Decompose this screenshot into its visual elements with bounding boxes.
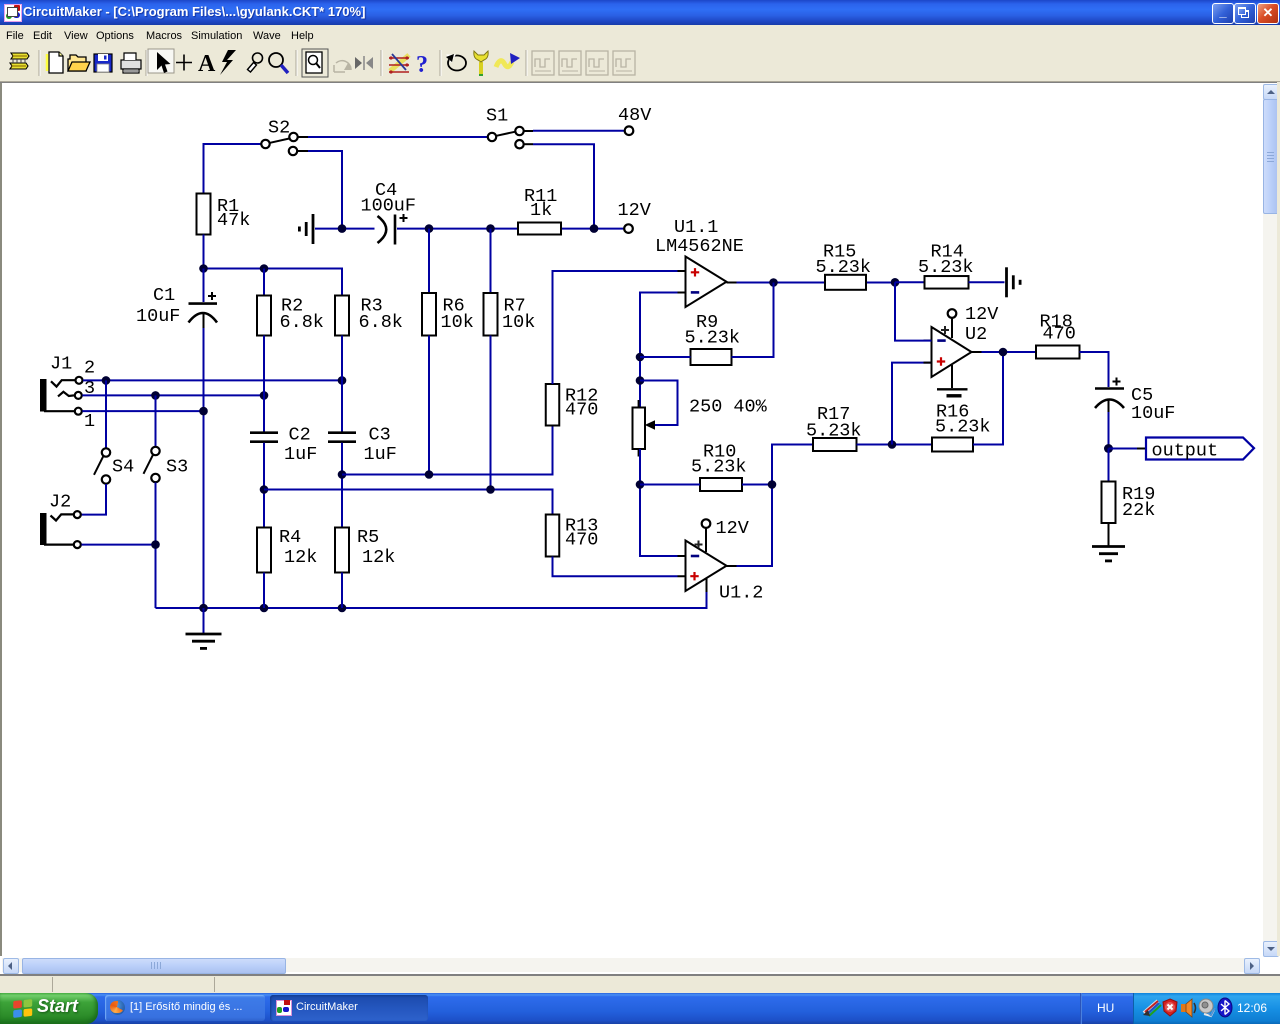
label LM4562NE — [655, 236, 744, 257]
capacitor C4 100uF — [378, 214, 408, 245]
wire R7 top — [490, 229, 492, 293]
resistor R10 — [700, 478, 742, 491]
label C2 1uF — [284, 425, 317, 466]
menu bar — [0, 25, 1280, 45]
wire R12 top to U1.1 + input — [553, 271, 678, 384]
label R19 22k — [1122, 484, 1155, 521]
label R16 5.23k — [935, 402, 991, 438]
wire C3 bottom to R5 — [338, 443, 347, 528]
switch S3 — [144, 447, 160, 482]
wire bottom ground rail — [156, 592, 707, 613]
switch S2 — [261, 133, 308, 155]
label R17 5.23k — [806, 404, 862, 442]
wire U2 output — [982, 348, 1037, 357]
resistor R5 — [335, 528, 349, 573]
wire U2 VCC stub — [951, 318, 953, 338]
wire U1.2 VEE stub — [706, 579, 708, 593]
resistor R15 — [825, 275, 866, 290]
label 48V — [618, 105, 651, 126]
terminal 12V U2 — [948, 309, 957, 318]
label R5 12k — [357, 527, 395, 568]
op-amp U2 — [924, 326, 982, 377]
title bar — [0, 0, 1280, 25]
wire R19 bottom — [1108, 523, 1110, 546]
wire U1.2 output up to R17 — [737, 445, 814, 567]
svg-text:12k: 12k — [362, 547, 395, 568]
label pot 250 40% — [689, 397, 768, 418]
label output — [1152, 441, 1219, 462]
wire S1 lower to 12V row — [533, 144, 594, 228]
wire output node to flag — [1109, 448, 1147, 450]
pen icon — [1143, 1001, 1161, 1016]
resistor R19 — [1102, 482, 1116, 524]
gray speaker — [1199, 999, 1215, 1016]
wire C5 bottom to output node — [1108, 412, 1110, 449]
wire ground to C4 — [315, 228, 375, 230]
svg-text:5.23k: 5.23k — [685, 328, 741, 349]
resistor R18 — [1036, 346, 1080, 359]
wire R5 bottom — [341, 573, 343, 609]
svg-text:J2: J2 — [49, 492, 71, 513]
label R13 470 — [565, 516, 598, 551]
wire R2 bottom to C2 — [263, 336, 265, 432]
label U1.1 — [674, 217, 718, 238]
speaker orange — [1181, 999, 1196, 1017]
wire pot bottom to R10 row — [636, 449, 678, 556]
wire S4 bottom to J2 tip — [82, 484, 107, 515]
op-amp U1.2 — [678, 541, 737, 592]
resistor R7 — [484, 293, 498, 336]
svg-text:5.23k: 5.23k — [806, 421, 862, 442]
capacitor C5 10uF — [1095, 378, 1124, 413]
op-amp U1.1 — [678, 257, 737, 308]
wire C1 bottom long vertical — [203, 328, 205, 608]
wire R6 bottom — [428, 336, 430, 475]
resistor R6 — [422, 293, 436, 336]
label R9 5.23k — [685, 312, 741, 349]
label S4 — [112, 457, 134, 478]
wire row to R13 top — [264, 485, 553, 514]
label R18 470 — [1040, 312, 1076, 345]
task button 1 — [105, 995, 265, 1021]
wire R9 right to output — [732, 283, 774, 358]
wire S2 lower contact down to C4 row — [308, 151, 342, 229]
resistor R11 — [518, 223, 561, 235]
label R14 5.23k — [918, 242, 974, 279]
label J1 pin 3 — [84, 378, 95, 399]
resistor R4 — [257, 528, 271, 573]
label J1 — [50, 354, 72, 375]
svg-text:S1: S1 — [486, 106, 508, 127]
svg-text:5.23k: 5.23k — [691, 457, 747, 478]
label R4 12k — [279, 527, 317, 568]
svg-text:12V: 12V — [618, 200, 651, 221]
output flag — [1146, 438, 1254, 460]
wire C4 to 12V terminal — [397, 228, 624, 230]
label S3 — [166, 457, 188, 478]
wire C1 top — [203, 269, 205, 303]
wire R13 bottom to U1.2 + input — [553, 557, 678, 577]
svg-text:S3: S3 — [166, 457, 188, 478]
tray — [1080, 993, 1082, 1024]
wire R19 top — [1108, 449, 1110, 482]
label C3 1uF — [364, 425, 397, 466]
ground below U2 — [937, 389, 968, 396]
potentiometer 250 40% — [633, 381, 678, 457]
resistor R13 — [546, 515, 560, 557]
horizontal scrollbar — [2, 958, 1260, 972]
wire U2 + input — [892, 363, 932, 445]
label R7 10k — [502, 296, 535, 334]
wire R18 right down to C5 — [1080, 352, 1109, 387]
svg-text:12V: 12V — [965, 304, 998, 325]
svg-text:470: 470 — [565, 400, 598, 421]
wire C2 bottom to R4 — [260, 443, 269, 528]
resistor R12 — [546, 384, 560, 426]
svg-text:R4: R4 — [279, 527, 301, 548]
svg-text:R5: R5 — [357, 527, 379, 548]
svg-text:S4: S4 — [112, 457, 134, 478]
wire R16 right up to U2 output — [973, 353, 1003, 445]
jack J1 — [40, 377, 83, 415]
svg-text:LM4562NE: LM4562NE — [655, 236, 744, 257]
wire R7 bottom — [490, 336, 492, 490]
label C4 100uF — [361, 180, 417, 217]
svg-text:U1.2: U1.2 — [719, 583, 763, 604]
label R3 6.8k — [359, 296, 403, 334]
wire U1.2 VCC stub — [705, 528, 707, 552]
label C1 10uF — [136, 285, 180, 327]
svg-text:5.23k: 5.23k — [918, 257, 974, 278]
svg-text:100uF: 100uF — [361, 196, 417, 217]
jack J2 — [40, 511, 81, 548]
label 12V U1.2 — [716, 518, 749, 539]
terminal 12V U1.2 — [702, 519, 711, 528]
node R11 right — [590, 224, 599, 233]
svg-text:12V: 12V — [716, 518, 749, 539]
svg-text:22k: 22k — [1122, 500, 1155, 521]
label R11 1k — [524, 186, 557, 221]
red shield — [1163, 999, 1177, 1016]
wire junction down to U2 - input — [895, 282, 932, 340]
status bar — [0, 974, 1280, 976]
resistor R2 — [257, 296, 271, 336]
node R7 top — [486, 224, 495, 233]
label R12 470 — [565, 386, 598, 421]
resistor R9 — [691, 349, 732, 365]
wire R14 right to ground — [969, 281, 1005, 283]
svg-text:10uF: 10uF — [1131, 403, 1175, 424]
toolbar — [0, 45, 1280, 82]
resistor R1 — [197, 194, 211, 235]
label U2 — [965, 324, 987, 345]
wire R1 bottom to node row — [203, 235, 205, 269]
svg-text:1uF: 1uF — [364, 444, 397, 465]
wire row to R12 bottom — [342, 426, 553, 479]
title text — [23, 4, 365, 19]
wire S2 left to R1 top — [204, 144, 262, 194]
node S2-C4 — [338, 224, 347, 233]
capacitor C2 — [250, 433, 278, 442]
svg-text:470: 470 — [1043, 324, 1076, 345]
wire J1 pin3 row — [82, 391, 268, 400]
wire U1.1 output — [737, 278, 892, 287]
node R6 top — [425, 224, 434, 233]
wire S3 bottom down — [151, 483, 160, 609]
label R1 47k — [217, 196, 250, 231]
svg-text:6.8k: 6.8k — [280, 312, 324, 333]
label C5 10uF — [1131, 385, 1175, 424]
label 12V — [618, 200, 651, 221]
start button — [0, 993, 98, 1024]
wire R9 left — [640, 356, 691, 358]
resistor R3 — [335, 296, 349, 336]
svg-text:10uF: 10uF — [136, 306, 180, 327]
label U1.2 — [719, 583, 763, 604]
terminal 48V — [625, 126, 634, 135]
node R15-R14 — [891, 278, 900, 287]
label R15 5.23k — [816, 242, 872, 279]
label J1 pin 1 — [84, 411, 95, 432]
svg-text:6.8k: 6.8k — [359, 312, 403, 333]
svg-text:S2: S2 — [268, 118, 290, 139]
ground left of C4 — [299, 214, 313, 244]
svg-text:output: output — [1152, 441, 1219, 462]
svg-text:250 40%: 250 40% — [689, 397, 768, 418]
capacitor C3 — [328, 433, 356, 442]
label J1 pin 2 — [84, 358, 95, 379]
wire R10 left — [640, 484, 700, 486]
svg-text:12k: 12k — [284, 547, 317, 568]
svg-text:J1: J1 — [50, 354, 72, 375]
svg-text:5.23k: 5.23k — [816, 257, 872, 278]
svg-text:U1.1: U1.1 — [674, 217, 718, 238]
node R1-R2-R3 row — [199, 264, 342, 295]
wire S3 top — [155, 395, 157, 446]
node output — [1104, 444, 1113, 453]
svg-text:C2: C2 — [289, 425, 311, 446]
wire R3 bottom to C3 — [341, 336, 343, 432]
wire U2 VEE stub — [951, 365, 953, 388]
wire J2 sleeve row — [82, 544, 156, 546]
wire S2 to S1 — [308, 136, 488, 138]
ground right of R14 — [1007, 267, 1021, 297]
svg-text:C3: C3 — [369, 425, 391, 446]
wire R6 top — [428, 229, 430, 293]
bluetooth — [1218, 998, 1232, 1017]
wire S4 top — [105, 380, 107, 448]
terminal 12V — [624, 224, 633, 233]
svg-text:10k: 10k — [502, 312, 535, 333]
svg-text:1k: 1k — [530, 200, 552, 221]
wire R10 right — [742, 484, 772, 486]
label J2 — [49, 492, 71, 513]
svg-text:470: 470 — [565, 530, 598, 551]
label 12V U2 — [965, 304, 998, 325]
switch S1 — [488, 127, 533, 149]
wire U1.1 - input — [636, 293, 678, 408]
svg-text:10k: 10k — [441, 312, 474, 333]
taskbar — [0, 993, 1280, 1024]
wire R4 bottom — [263, 573, 265, 609]
wire S1 to 48V terminal — [533, 130, 625, 132]
svg-text:2: 2 — [84, 358, 95, 379]
svg-text:1uF: 1uF — [284, 444, 317, 465]
capacitor C1 — [189, 292, 218, 328]
resistor R16 — [932, 438, 973, 452]
switch S4 — [94, 448, 110, 483]
wire J1 pin2 row — [83, 376, 346, 385]
app icon — [4, 4, 22, 22]
label R2 6.8k — [280, 296, 324, 334]
window buttons — [1212, 3, 1234, 24]
resistor R14 — [925, 276, 969, 289]
svg-text:5.23k: 5.23k — [935, 417, 991, 438]
svg-text:1: 1 — [84, 411, 95, 432]
ground below R19 — [1092, 547, 1125, 561]
wire R2 top stub — [263, 269, 265, 296]
svg-text:47k: 47k — [217, 210, 250, 231]
ground bottom rail — [186, 608, 222, 648]
svg-text:C1: C1 — [153, 285, 175, 306]
svg-text:U2: U2 — [965, 324, 987, 345]
wire R17 right to R16 — [857, 440, 933, 449]
label R10 5.23k — [691, 442, 747, 478]
resistor R17 — [813, 438, 857, 451]
label S2 — [268, 118, 290, 139]
wire J1 pin1 row — [82, 407, 208, 416]
label S1 — [486, 106, 508, 127]
label R6 10k — [441, 296, 474, 334]
vertical scrollbar — [1263, 84, 1277, 955]
wire R14 left — [895, 281, 925, 283]
task button 2 (active) — [270, 995, 428, 1021]
svg-text:48V: 48V — [618, 105, 651, 126]
